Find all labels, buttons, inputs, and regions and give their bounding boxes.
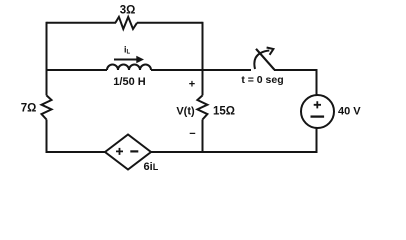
wire right vertical lower <box>316 128 318 153</box>
svg-text:3Ω: 3Ω <box>120 5 136 17</box>
svg-text:1/50 H: 1/50 H <box>113 76 145 88</box>
current arrow iL <box>114 56 144 64</box>
wire bottom left of diamond <box>46 151 106 153</box>
svg-text:6iL: 6iL <box>144 161 159 173</box>
voltage source 40 V <box>301 95 334 128</box>
svg-text:iL: iL <box>124 45 131 56</box>
svg-text:7Ω: 7Ω <box>21 103 37 115</box>
wire top segment left <box>47 22 117 24</box>
wire left vertical upper <box>46 22 48 96</box>
resistor 15Ω zigzag <box>197 95 207 119</box>
wire top segment right <box>137 22 203 24</box>
wire right vertical upper <box>316 69 318 96</box>
wire inductor to switch <box>151 69 251 71</box>
wire middle vertical upper <box>202 22 204 96</box>
switch arrowhead <box>267 48 274 55</box>
resistor 3Ω zigzag <box>115 17 137 29</box>
switch blade <box>256 49 275 70</box>
resistor 7Ω zigzag <box>42 95 52 119</box>
wire left vertical lower <box>46 120 48 154</box>
wire middle vertical lower <box>202 120 204 154</box>
wire bottom right of diamond <box>151 151 318 153</box>
svg-text:40 V: 40 V <box>338 106 361 118</box>
dependent source 6iL (diamond) <box>105 135 151 170</box>
svg-text:−: − <box>189 128 195 140</box>
svg-text:t = 0 seg: t = 0 seg <box>241 74 283 86</box>
svg-text:V(t): V(t) <box>176 106 195 118</box>
inductor 1/50 H coil <box>107 65 151 71</box>
switch motion arrow arc <box>254 51 269 70</box>
wire switch to right corner <box>274 69 318 71</box>
switch t = 0 <box>254 48 274 70</box>
svg-text:15Ω: 15Ω <box>213 106 235 118</box>
svg-text:+: + <box>189 79 195 91</box>
wire middle horizontal left of inductor <box>46 69 108 71</box>
